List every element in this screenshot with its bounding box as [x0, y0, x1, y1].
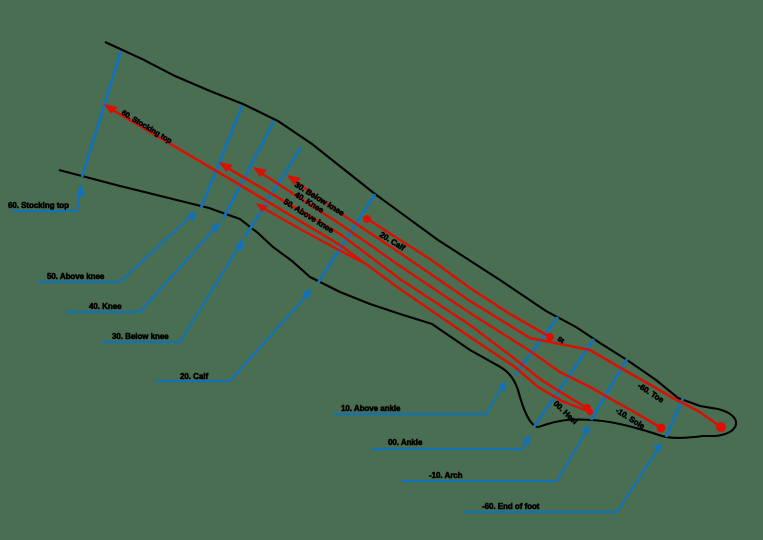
- red measurement line R3 (knee to sole): [255, 169, 661, 428]
- svg-text:10. Above ankle: 10. Above ankle: [341, 404, 401, 413]
- leader 00 arrowhead: [522, 435, 531, 446]
- svg-text:-10. Arch: -10. Arch: [429, 471, 463, 480]
- svg-text:00. Ankle: 00. Ankle: [388, 438, 423, 447]
- level line 50 (above knee): [201, 106, 242, 208]
- level line -10 (arch): [591, 359, 627, 420]
- leader 20 calf: [155, 295, 307, 381]
- leader 60 arrowhead: [76, 183, 85, 196]
- red measurement line R2 (above knee to heel): [221, 164, 587, 408]
- red line R5 start dot: [363, 215, 371, 223]
- level line 60 (stocking top): [82, 51, 121, 177]
- level line 10 (above ankle): [515, 317, 558, 375]
- svg-text:60. Stocking top: 60. Stocking top: [8, 201, 69, 210]
- red line R3 start arrowhead: [253, 167, 267, 177]
- leader 10 arrowhead: [498, 380, 506, 392]
- red measurement line R0 (short, below knee area): [258, 205, 362, 262]
- svg-text:20. Calf: 20. Calf: [180, 372, 208, 381]
- level line 00 (ankle): [534, 339, 594, 427]
- leader 00 ankle: [372, 441, 527, 449]
- leader 40 knee: [65, 227, 216, 312]
- red line R2 start arrowhead: [219, 162, 233, 172]
- red measurement line R1 (stocking top to toe): [106, 106, 590, 412]
- svg-text:30. Below knee: 30. Below knee: [112, 332, 169, 341]
- leader 50 arrowhead: [187, 211, 197, 222]
- red line R2 end dot (heel): [583, 404, 591, 412]
- red line R4 end dot (toe): [716, 422, 726, 432]
- red line R1 start arrowhead: [104, 104, 118, 114]
- red line R1 end dot (heel): [587, 409, 593, 415]
- leg outline heel and calf bottom edge: [59, 170, 537, 427]
- leg outline sole edge: [537, 420, 703, 438]
- leader 30 below knee: [102, 245, 240, 342]
- leader -60 end of foot: [464, 449, 658, 512]
- leader -60 arrowhead: [653, 443, 662, 453]
- red line R5 end dot: [546, 333, 554, 341]
- level line -60 (end of foot): [666, 398, 683, 437]
- leader 20 arrowhead: [302, 289, 312, 300]
- level line 40 (knee): [223, 121, 274, 219]
- leader 10 above ankle: [333, 385, 503, 414]
- leader 30 arrowhead: [235, 239, 243, 251]
- level line 30 (below knee): [245, 147, 301, 237]
- red line R0 start arrowhead: [256, 203, 268, 212]
- leader -10 arrowhead: [581, 425, 590, 435]
- leg outline top edge: [105, 42, 718, 409]
- svg-text:40. Knee: 40. Knee: [89, 302, 122, 311]
- leg outline toe curve: [703, 409, 736, 436]
- leader -10 arch: [402, 430, 587, 481]
- level line 20 (calf): [318, 194, 375, 283]
- red measurement line R5 (calf to heel point): [366, 218, 550, 337]
- leader 60 stocking top: [12, 190, 80, 211]
- leader 50 above knee: [37, 215, 192, 282]
- red line R3 end dot (sole): [657, 424, 666, 433]
- red measurement line R4 (below knee to toe top): [289, 177, 721, 427]
- svg-text:-60. End of foot: -60. End of foot: [482, 502, 540, 511]
- svg-text:50. Above knee: 50. Above knee: [47, 272, 105, 281]
- leader 40 arrowhead: [211, 222, 221, 233]
- red line R4 start arrowhead: [287, 175, 301, 185]
